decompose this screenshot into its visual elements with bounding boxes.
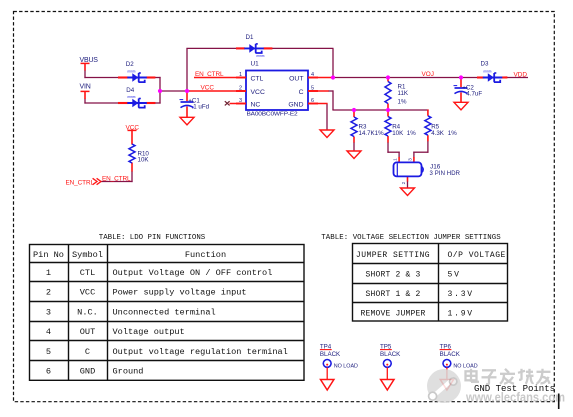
svg-text:CTL: CTL (80, 268, 95, 278)
svg-text:6: 6 (46, 367, 51, 377)
svg-text:D1: D1 (246, 34, 254, 41)
svg-text:REMOVE JUMPER: REMOVE JUMPER (360, 310, 425, 319)
svg-text:mmm: mmm (257, 54, 265, 58)
svg-text:1%: 1% (407, 130, 416, 137)
svg-text:BA00BC0WFP-E2: BA00BC0WFP-E2 (247, 112, 298, 118)
svg-text:VBUS: VBUS (80, 57, 99, 64)
svg-text:OUT: OUT (289, 75, 303, 82)
svg-text:5: 5 (311, 85, 314, 91)
svg-text:EN_CTRL: EN_CTRL (66, 179, 95, 186)
svg-text:10K: 10K (392, 130, 404, 137)
svg-text:4.7uF: 4.7uF (466, 90, 482, 97)
svg-text:TABLE: LDO PIN FUNCTIONS: TABLE: LDO PIN FUNCTIONS (99, 234, 206, 242)
svg-text:Pin No: Pin No (33, 250, 64, 260)
svg-text:BLACK: BLACK (380, 351, 401, 358)
svg-text:1.9V: 1.9V (448, 310, 474, 319)
svg-text:VCC: VCC (251, 89, 265, 96)
svg-text:6: 6 (311, 98, 314, 104)
svg-text:BLACK: BLACK (440, 351, 461, 358)
svg-text:U1: U1 (251, 61, 260, 68)
svg-text:N.C.: N.C. (77, 307, 98, 317)
svg-text:SHORT 1 & 2: SHORT 1 & 2 (365, 290, 420, 299)
svg-text:NC: NC (251, 101, 261, 108)
svg-text:2: 2 (46, 288, 51, 298)
svg-text:GND Test Points: GND Test Points (474, 384, 555, 394)
svg-text:1: 1 (393, 158, 398, 161)
svg-text:D3: D3 (481, 61, 489, 68)
svg-text:3: 3 (46, 307, 51, 317)
svg-text:4.3K: 4.3K (431, 130, 445, 137)
svg-text:Symbol: Symbol (72, 250, 103, 260)
svg-text:10K: 10K (138, 156, 150, 163)
svg-text:O/P VOLTAGE: O/P VOLTAGE (448, 251, 506, 260)
svg-text:VCC: VCC (201, 85, 215, 92)
svg-text:Function: Function (185, 250, 226, 260)
svg-text:2: 2 (239, 85, 242, 91)
svg-text:VCC: VCC (126, 124, 140, 131)
svg-text:1%: 1% (448, 130, 457, 137)
svg-text:CTL: CTL (251, 75, 264, 82)
svg-text:mmm: mmm (128, 70, 136, 74)
svg-text:3.3V: 3.3V (448, 290, 474, 299)
svg-text:BLACK: BLACK (320, 351, 341, 358)
svg-text:5: 5 (46, 347, 51, 357)
svg-text:EN_CTRL: EN_CTRL (195, 71, 224, 78)
svg-text:D4: D4 (126, 87, 134, 94)
svg-text:SHORT 2 & 3: SHORT 2 & 3 (365, 270, 420, 279)
svg-text:VCC: VCC (80, 288, 95, 298)
svg-text:Voltage output: Voltage output (113, 327, 185, 337)
svg-text:4: 4 (311, 72, 314, 78)
svg-text:Ground: Ground (113, 367, 144, 377)
svg-text:EN_CTRL: EN_CTRL (102, 176, 131, 183)
svg-text:11K: 11K (398, 90, 409, 97)
svg-text:1: 1 (239, 72, 242, 78)
svg-text:Output voltage regulation term: Output voltage regulation terminal (113, 347, 288, 357)
svg-text:NO LOAD: NO LOAD (453, 364, 477, 370)
svg-text:GND: GND (288, 101, 303, 108)
svg-text:mmm: mmm (128, 95, 136, 99)
svg-text:VDD: VDD (514, 71, 528, 78)
svg-text:2: 2 (401, 181, 406, 184)
svg-text:C: C (299, 89, 304, 96)
svg-text:3: 3 (408, 158, 413, 161)
svg-text:VOJ: VOJ (422, 71, 434, 78)
svg-text:OUT: OUT (80, 327, 95, 337)
svg-text:C: C (85, 347, 90, 357)
svg-text:mmm: mmm (484, 70, 492, 74)
svg-text:Power supply voltage input: Power supply voltage input (113, 288, 247, 298)
svg-text:1: 1 (46, 268, 51, 278)
svg-text:Output Voltage ON / OFF contro: Output Voltage ON / OFF control (113, 268, 273, 278)
svg-text:GND: GND (80, 367, 95, 377)
svg-text:Unconnected terminal: Unconnected terminal (113, 307, 216, 317)
svg-text:J16: J16 (430, 164, 441, 171)
svg-text:14.7K1%: 14.7K1% (359, 130, 385, 137)
svg-text:3 PIN HDR: 3 PIN HDR (430, 171, 461, 177)
svg-text:JUMPER SETTING: JUMPER SETTING (356, 251, 430, 260)
svg-text:3: 3 (239, 98, 242, 104)
svg-text:D2: D2 (126, 61, 134, 68)
svg-text:VIN: VIN (80, 84, 91, 91)
svg-text:NO LOAD: NO LOAD (334, 364, 358, 370)
svg-text:4: 4 (46, 327, 51, 337)
svg-text:1%: 1% (398, 99, 407, 106)
svg-text:.1 uFd: .1 uFd (192, 103, 210, 110)
svg-text:5V: 5V (448, 270, 461, 279)
svg-text:TABLE: VOLTAGE SELECTION JUMPE: TABLE: VOLTAGE SELECTION JUMPER SETTINGS (321, 234, 501, 242)
